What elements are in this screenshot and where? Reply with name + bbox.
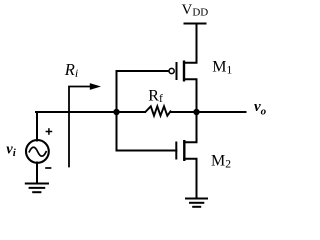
transistor M2 drain lead to output node — [184, 112, 196, 142]
svg-text:VDD: VDD — [182, 2, 209, 19]
wire Rf to output node — [171, 111, 197, 113]
transistor M2 channel bar — [183, 141, 185, 160]
input resistance arrow R_i — [69, 87, 91, 167]
transistor M1 source lead to VDD — [184, 24, 197, 63]
polarity minus — [45, 167, 51, 169]
svg-text:vo: vo — [254, 99, 267, 118]
transistor M1 channel bar — [183, 62, 185, 81]
svg-text:Rf: Rf — [148, 87, 163, 105]
voltage source v_i — [26, 140, 49, 163]
transistor M1 drain lead to output node — [184, 79, 197, 112]
transistor M2 (NMOS) gate bar — [175, 143, 177, 159]
wire to M1 gate — [117, 70, 169, 72]
wire source bottom to ground — [36, 163, 38, 184]
wire input node horizontal — [36, 111, 145, 113]
resistor Rf — [146, 106, 171, 115]
wire output node to v_o — [197, 111, 246, 113]
transistor M2 source lead to ground — [184, 159, 196, 199]
node A (input node junction dot) — [113, 109, 119, 115]
wire to M2 gate — [117, 150, 177, 152]
svg-text:vi: vi — [6, 141, 16, 159]
VDD supply bar — [185, 23, 206, 25]
svg-text:M2: M2 — [211, 152, 231, 170]
svg-text:M1: M1 — [212, 59, 232, 77]
ground (M2 source) — [186, 198, 207, 200]
svg-text:Ri: Ri — [64, 60, 78, 80]
ground (source) — [26, 183, 48, 185]
wire gate riser (input node up to M1 gate, down to M2 gate) — [116, 71, 118, 151]
node B (output node junction dot) — [193, 109, 199, 115]
wire source top to input node — [36, 112, 38, 141]
transistor M1 gate bar — [176, 63, 178, 79]
arrowhead of R_i — [90, 83, 101, 90]
polarity plus — [46, 128, 53, 135]
transistor M1 (PMOS) gate bubble — [169, 68, 174, 73]
